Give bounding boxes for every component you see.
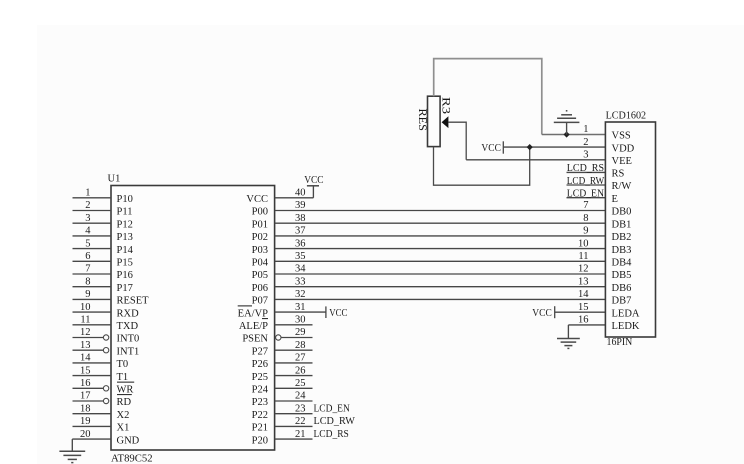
svg-text:VCC: VCC [246,194,268,205]
overline RD [117,394,132,396]
svg-text:P24: P24 [252,385,269,396]
U1 pin 1 (P10) wire [73,197,112,199]
svg-text:U1: U1 [108,174,121,185]
svg-text:12: 12 [80,327,91,338]
svg-text:ALE/P: ALE/P [239,321,268,332]
svg-text:P14: P14 [117,245,134,256]
svg-text:DB5: DB5 [612,270,632,281]
U1 pin 31 (EA/VP) wire [275,311,326,313]
svg-text:25: 25 [295,378,306,389]
U1 pin 16 (WR) wire [73,387,104,389]
svg-text:31: 31 [295,302,306,313]
junction on VSS wire [564,131,570,137]
wire: VSS net to LCD pin1 [542,134,606,136]
svg-text:R/W: R/W [612,181,632,192]
U1 pin 13 bubble [103,348,108,353]
junction on VDD wire [527,144,533,150]
svg-text:7: 7 [85,264,90,275]
svg-text:2: 2 [583,137,588,148]
svg-text:2: 2 [85,200,90,211]
svg-text:28: 28 [295,340,306,351]
svg-text:T0: T0 [117,359,129,370]
overline WR [117,381,134,383]
svg-text:P16: P16 [117,270,133,281]
svg-text:3: 3 [583,150,588,161]
op: LCD1602 display body [605,122,655,337]
svg-text:3: 3 [85,213,90,224]
U1 pin 11 (TXD) wire [73,324,112,326]
svg-text:P21: P21 [252,423,268,434]
U1 pin 13 (INT1) wire [73,349,104,351]
U1 pin 3 (P12) wire [73,222,112,224]
U1 pin 38 (P01) wire [275,222,606,224]
svg-text:RES: RES [416,109,430,132]
svg-text:VCC: VCC [532,308,552,319]
U1 pin 30 (ALE/P) wire [275,324,313,326]
R3 wiper arrow [442,116,449,128]
svg-text:16: 16 [578,315,589,326]
U1 pin 2 (P11) wire [73,210,112,212]
U1 pin 40 (VCC) wire [275,197,314,199]
svg-text:GND: GND [117,435,140,446]
U1 pin 27 (P26) wire [275,362,313,364]
svg-text:VDD: VDD [612,143,635,154]
svg-text:17: 17 [80,391,91,402]
wire: VEE net to LCD pin3 [466,159,605,161]
svg-text:E: E [612,194,618,205]
svg-text:13: 13 [80,340,91,351]
svg-text:RESET: RESET [117,296,150,307]
svg-text:12: 12 [578,264,589,275]
svg-text:P26: P26 [252,359,268,370]
ground at U1 pin 20 [71,439,73,451]
svg-text:X1: X1 [117,423,130,434]
svg-text:37: 37 [295,226,306,237]
svg-text:23: 23 [295,403,306,414]
wire: VCC to LCD pin2 VDD [503,146,605,148]
svg-text:EA/VP: EA/VP [238,308,268,319]
svg-text:36: 36 [295,238,306,249]
svg-text:7: 7 [583,200,588,211]
svg-text:RS: RS [612,169,625,180]
svg-text:WR: WR [117,385,134,396]
svg-text:P12: P12 [117,219,133,230]
wire: R3 wiper to VEE [448,122,466,160]
svg-text:INT0: INT0 [117,334,140,345]
wire: R3 top lead to VSS loop [434,59,542,135]
svg-text:DB6: DB6 [612,283,632,294]
U1 pin 36 (P03) wire [275,248,606,250]
U1 pin 15 (T1) wire [73,375,112,377]
svg-text:14: 14 [80,353,91,364]
U1 pin 14 (T0) wire [73,362,112,364]
svg-text:22: 22 [295,416,306,427]
svg-text:5: 5 [85,238,90,249]
svg-text:38: 38 [295,213,306,224]
svg-text:P06: P06 [252,283,268,294]
svg-text:8: 8 [583,213,588,224]
U1 pin 39 (P00) wire [275,210,606,212]
U1 pin 17 bubble [103,398,108,403]
svg-text:VCC: VCC [329,308,347,319]
U1 pin 21 (P20) wire [275,438,313,440]
wire: R3 bottom lead to VCC/VDD [434,147,530,186]
net label LCD_RS stub (LCD pin4) [567,171,606,173]
overline EA of EA/VP [238,305,252,307]
U1 pin 28 (P27) wire [275,349,313,351]
svg-text:P02: P02 [252,232,268,243]
svg-text:LEDK: LEDK [612,321,640,332]
svg-text:P10: P10 [117,194,133,205]
svg-text:P04: P04 [252,258,269,269]
svg-text:10: 10 [80,302,91,313]
overline P of ALE/P [262,318,268,320]
U1 pin 35 (P04) wire [275,260,606,262]
svg-text:INT1: INT1 [117,346,140,357]
U1 pin 25 (P24) wire [275,387,313,389]
U1 pin 8 (P17) wire [73,286,112,288]
svg-text:P03: P03 [252,245,268,256]
svg-text:VCC: VCC [481,143,501,154]
svg-text:LCD_EN: LCD_EN [567,189,605,200]
net label LCD_EN stub (LCD pin6) [567,197,606,199]
svg-text:P17: P17 [117,283,133,294]
power VCC at U1 pin 31 [325,306,327,318]
svg-text:30: 30 [295,315,306,326]
svg-text:LCD_EN: LCD_EN [314,403,351,414]
svg-text:P07: P07 [252,296,268,307]
svg-text:19: 19 [80,416,91,427]
svg-text:P15: P15 [117,258,133,269]
svg-text:AT89C52: AT89C52 [111,453,153,464]
U1 pin 17 (RD) wire [73,400,104,402]
svg-text:P23: P23 [252,397,268,408]
svg-text:10: 10 [578,238,589,249]
svg-text:RD: RD [117,397,132,408]
svg-text:32: 32 [295,289,306,300]
wire and ground at LCD pin16 LEDK [568,324,605,326]
U1 pin 26 (P25) wire [275,375,313,377]
svg-text:DB4: DB4 [612,258,633,269]
svg-text:T1: T1 [117,372,129,383]
svg-text:P22: P22 [252,410,268,421]
resistor R3 (RES potentiometer) body [428,96,441,146]
U1 pin 24 (P23) wire [275,400,313,402]
ground above VSS junction [566,122,568,134]
svg-text:33: 33 [295,276,306,287]
U1 pin 20 (GND) wire [72,438,111,440]
svg-text:11: 11 [80,315,90,326]
svg-text:VCC: VCC [304,175,323,186]
svg-text:26: 26 [295,365,306,376]
svg-text:TXD: TXD [117,321,139,332]
svg-text:RXD: RXD [117,308,140,319]
svg-text:9: 9 [583,226,588,237]
U1 pin 23 (P22) wire [275,413,313,415]
svg-text:X2: X2 [117,410,130,421]
op: microcontroller U1 AT89C52 body [111,186,275,451]
U1 pin 18 (X2) wire [73,413,112,415]
svg-text:R3: R3 [440,97,454,114]
svg-text:29: 29 [295,327,306,338]
U1 pin 29 bubble [276,335,281,340]
U1 pin 22 (P21) wire [275,425,313,427]
svg-text:VEE: VEE [612,156,632,167]
U1 pin 9 (RESET) wire [73,298,112,300]
U1 pin 12 bubble [103,335,108,340]
U1 pin 37 (P02) wire [275,235,606,237]
svg-text:20: 20 [80,429,91,440]
svg-text:P27: P27 [252,346,268,357]
U1 pin 16 bubble [103,386,108,391]
svg-text:DB7: DB7 [612,296,632,307]
svg-text:8: 8 [85,276,90,287]
U1 pin 32 (P07) wire [275,298,606,300]
svg-text:LEDA: LEDA [612,308,640,319]
svg-text:21: 21 [295,429,306,440]
svg-text:LCD_RW: LCD_RW [567,176,604,187]
U1 pin 12 (INT0) wire [73,337,104,339]
svg-text:15: 15 [80,365,91,376]
svg-text:P05: P05 [252,270,268,281]
svg-text:4: 4 [85,226,91,237]
svg-text:DB3: DB3 [612,245,632,256]
svg-text:P01: P01 [252,219,268,230]
svg-text:15: 15 [578,302,589,313]
U1 pin 5 (P14) wire [73,248,112,250]
svg-text:35: 35 [295,251,306,262]
svg-text:24: 24 [295,391,306,402]
svg-text:18: 18 [80,403,91,414]
svg-text:1: 1 [583,124,588,135]
svg-text:P25: P25 [252,372,268,383]
svg-text:6: 6 [85,251,90,262]
svg-text:VSS: VSS [612,131,631,142]
svg-text:P13: P13 [117,232,133,243]
U1 pin 10 (RXD) wire [73,311,112,313]
U1 pin 4 (P13) wire [73,235,112,237]
svg-text:11: 11 [578,251,588,262]
svg-text:DB2: DB2 [612,232,632,243]
svg-text:PSEN: PSEN [242,334,268,345]
svg-text:LCD1602: LCD1602 [606,111,647,122]
svg-text:16PIN: 16PIN [607,337,633,348]
svg-text:LCD_RS: LCD_RS [314,429,349,440]
svg-text:1: 1 [85,188,90,199]
svg-text:39: 39 [295,200,306,211]
svg-text:P00: P00 [252,207,268,218]
svg-text:34: 34 [295,264,306,275]
U1 pin 6 (P15) wire [73,260,112,262]
U1 pin 34 (P05) wire [275,273,606,275]
svg-text:P20: P20 [252,435,268,446]
power VCC at U1 pin 40 [312,186,314,198]
svg-text:DB1: DB1 [612,219,632,230]
svg-text:DB0: DB0 [612,207,632,218]
svg-text:14: 14 [578,289,589,300]
U1 pin 19 (X1) wire [73,425,112,427]
svg-text:P11: P11 [117,207,133,218]
net label LCD_RW stub (LCD pin5) [567,184,606,186]
U1 pin 33 (P06) wire [275,286,606,288]
U1 pin 7 (P16) wire [73,273,112,275]
svg-text:LCD_RW: LCD_RW [314,416,355,427]
svg-text:40: 40 [295,188,306,199]
svg-text:13: 13 [578,276,589,287]
svg-text:LCD_RS: LCD_RS [567,163,604,174]
svg-text:16: 16 [80,378,91,389]
svg-text:27: 27 [295,353,306,364]
svg-text:9: 9 [85,289,90,300]
